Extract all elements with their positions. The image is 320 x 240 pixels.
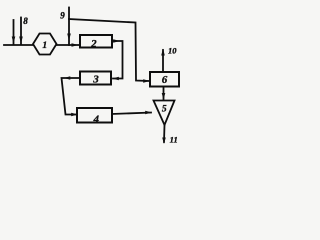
svg-text:9: 9 — [60, 11, 65, 21]
svg-text:6: 6 — [162, 74, 168, 86]
svg-text:8: 8 — [23, 16, 28, 26]
svg-text:5: 5 — [162, 105, 167, 115]
svg-text:11: 11 — [170, 135, 178, 145]
svg-text:1: 1 — [42, 41, 47, 51]
svg-text:4: 4 — [93, 113, 100, 125]
svg-text:2: 2 — [90, 38, 97, 50]
svg-text:3: 3 — [92, 74, 99, 86]
svg-text:10: 10 — [168, 46, 177, 56]
